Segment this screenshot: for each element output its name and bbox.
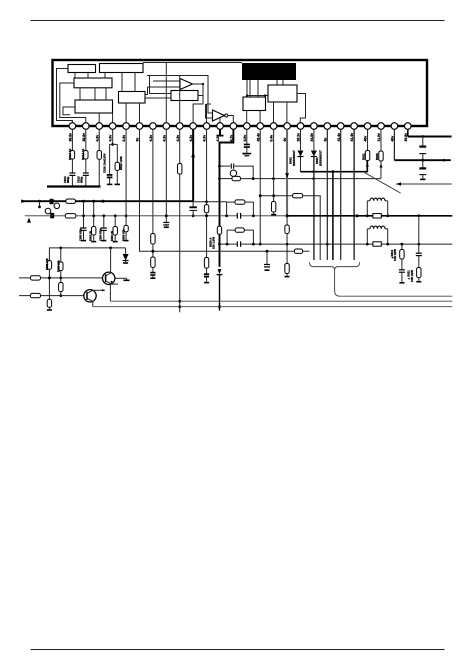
svg-text:C603 630u: C603 630u <box>78 227 82 241</box>
resistor R614 <box>70 151 74 160</box>
resistor R621 22k <box>48 251 50 261</box>
ground <box>48 307 50 309</box>
svg-text:10R 1/2W: 10R 1/2W <box>410 270 414 282</box>
wire y196 <box>260 195 292 197</box>
wire <box>60 271 62 283</box>
diode D604 <box>218 269 222 274</box>
resistor R607 <box>30 276 40 280</box>
ground <box>273 212 275 214</box>
wire pin19 long <box>313 157 315 261</box>
wire pin14 <box>246 129 248 144</box>
wire emitter <box>87 298 93 306</box>
svg-text:220 1.6W: 220 1.6W <box>212 237 216 249</box>
ground <box>206 277 208 282</box>
capacitor C618 <box>163 222 169 224</box>
resistor R602 <box>65 214 76 218</box>
IC internal block B5 <box>119 92 146 104</box>
capacitor C604 <box>101 227 107 229</box>
resistor R627 <box>232 176 241 180</box>
ceramic filter X601 <box>230 170 236 176</box>
wire trap2 <box>226 230 228 244</box>
ground <box>107 183 113 185</box>
wire pin22 <box>353 129 355 260</box>
diagonal line <box>365 173 401 193</box>
wire stub <box>39 201 41 206</box>
resistor R605 <box>373 214 381 218</box>
resistor R608 <box>30 293 40 297</box>
IC internal wires right <box>228 116 234 123</box>
IC internal wires left nest <box>57 69 73 123</box>
wire <box>422 154 424 168</box>
resistor R620 <box>204 205 208 213</box>
capacitor C617 <box>204 273 209 275</box>
wire stub <box>366 229 368 244</box>
svg-text:R621 22k: R621 22k <box>45 258 49 270</box>
wire pin23 <box>367 129 369 150</box>
wire pin2 <box>85 129 87 150</box>
svg-text:R614 1k: R614 1k <box>68 148 72 160</box>
wire <box>125 248 127 254</box>
resistor R635 <box>235 228 244 232</box>
wire <box>206 214 208 258</box>
capacitor C619 <box>244 144 250 146</box>
svg-text:R620 22k: R620 22k <box>56 260 60 272</box>
wire bus2 thick <box>287 215 452 217</box>
capacitor blob <box>50 213 54 218</box>
resistor R632 <box>294 249 302 253</box>
transistor Q601 <box>103 272 115 284</box>
IC internal block B3 <box>74 78 112 88</box>
svg-text:R603 3k: R603 3k <box>89 230 93 241</box>
ground <box>125 261 127 263</box>
wire pin9 long <box>179 174 181 312</box>
ground <box>286 274 288 276</box>
capacitor C623 <box>192 202 194 207</box>
wire branch resistor <box>218 177 221 180</box>
wire pin1 <box>71 129 73 150</box>
wire <box>48 269 50 299</box>
wire <box>286 234 288 264</box>
wire bus B <box>110 300 452 302</box>
svg-text:R613 1k: R613 1k <box>81 148 85 160</box>
wire from brace <box>335 270 453 296</box>
op-amp U601b <box>213 110 225 121</box>
ground <box>116 170 118 183</box>
ground <box>124 279 130 281</box>
ground <box>418 278 420 281</box>
IC internal block B6 <box>171 91 198 101</box>
wire line3 <box>19 277 103 279</box>
wire <box>83 201 85 227</box>
wire <box>192 210 194 215</box>
wire pin4 <box>112 129 114 144</box>
wire <box>71 175 73 187</box>
ground <box>125 232 127 240</box>
diode D603 <box>123 254 129 261</box>
wire <box>114 216 116 227</box>
resistor <box>47 299 51 307</box>
op-amp U601a <box>180 79 193 90</box>
ground <box>114 235 116 241</box>
wire pin12 stub <box>219 129 221 135</box>
IC internal block B8 <box>268 85 297 102</box>
svg-text:10R 1/2W: 10R 1/2W <box>393 249 397 261</box>
connector circle <box>45 208 51 214</box>
IC internal black block <box>242 63 296 80</box>
IC internal wires mid <box>104 73 106 79</box>
wire pin8 <box>165 129 167 222</box>
wire pin13 lower <box>219 275 221 311</box>
wire pin20 <box>326 129 328 260</box>
resistor R605 <box>124 225 128 231</box>
wire collector <box>93 289 105 291</box>
wire trap1 <box>226 202 228 216</box>
resistor R628 <box>271 202 275 213</box>
ground <box>242 153 251 155</box>
wire thick bus <box>47 185 101 187</box>
resistor R619 <box>178 164 182 175</box>
wire <box>246 147 248 153</box>
resistor R612 <box>400 250 404 260</box>
page bottom rule <box>31 649 445 651</box>
page top rule <box>31 20 445 22</box>
IC internal block B4 <box>75 100 113 113</box>
wire <box>71 159 73 173</box>
resistor <box>204 258 208 269</box>
IC pins 1-26 <box>69 123 76 130</box>
resistor R615 <box>97 151 101 160</box>
wire pin26 thick <box>407 129 409 136</box>
resistor <box>59 283 63 292</box>
inductor L602 <box>367 228 370 230</box>
capacitor CF <box>230 164 232 169</box>
resistor R631 <box>293 194 303 198</box>
wire L1 thick <box>300 161 367 172</box>
wire <box>299 157 301 172</box>
wire thick y160 <box>394 159 450 161</box>
wire line4 <box>19 295 84 297</box>
svg-text:R605 39k: R605 39k <box>122 229 126 241</box>
wire branch ceramic filter <box>220 165 231 167</box>
capacitor C621 <box>419 167 426 169</box>
wire cap chain <box>422 137 424 147</box>
diode D602 <box>297 151 303 157</box>
resistor R634 <box>235 200 245 204</box>
wire jog thick <box>332 172 334 260</box>
wire pin3 <box>98 129 100 150</box>
resistor R611 <box>417 268 421 278</box>
wire rail y247.9 <box>49 248 125 251</box>
wire pin5 <box>125 129 127 225</box>
wire bus A thick <box>22 200 194 202</box>
wire <box>206 268 208 274</box>
svg-text:ISS306/SOT: ISS306/SOT <box>318 150 322 166</box>
ground <box>401 272 403 282</box>
wire pin19 <box>313 129 315 150</box>
wire arrow line <box>396 183 452 185</box>
ground <box>103 230 105 239</box>
wire bus2 thin <box>25 215 287 217</box>
wire below bus <box>286 216 288 225</box>
capacitor <box>416 252 422 254</box>
capacitor C620 <box>419 146 426 148</box>
resistor R626 <box>379 151 383 161</box>
wire bus C <box>93 306 453 308</box>
wire pin16 <box>273 129 275 201</box>
connector circle <box>54 203 60 209</box>
diode D601 <box>311 151 317 157</box>
wire <box>152 268 154 273</box>
wire pin15 <box>259 129 261 244</box>
wire pin9 <box>179 129 181 163</box>
resistor R613 <box>84 151 88 160</box>
capacitor blob <box>50 199 54 204</box>
resistor R618 <box>151 257 155 268</box>
ground <box>165 225 167 226</box>
wire jog <box>303 196 321 260</box>
capacitor chain <box>266 251 268 264</box>
resistor R630 <box>285 264 289 274</box>
wire pin13 mid <box>219 234 221 266</box>
wire pin11 <box>206 129 208 205</box>
wire stub <box>366 201 368 216</box>
wire pin24 <box>380 129 382 151</box>
ground <box>152 275 154 277</box>
wire pin10 thick <box>192 129 194 201</box>
svg-text:680p: 680p <box>66 176 70 183</box>
transistor Q602 <box>84 290 96 302</box>
wire <box>401 259 403 270</box>
wire pin13 thick <box>220 129 234 226</box>
wire L2 long <box>241 178 381 180</box>
svg-text:ISS306/SOT: ISS306/SOT <box>292 150 296 166</box>
svg-text:R626: R626 <box>375 153 379 160</box>
wire <box>303 250 310 252</box>
resistor R601 <box>66 199 76 203</box>
IC internal block B2 <box>100 64 144 73</box>
wire pin18 <box>299 129 301 150</box>
wire <box>418 216 420 253</box>
wire <box>401 244 403 249</box>
capacitor C603 <box>81 227 87 229</box>
wire emitter <box>112 283 119 285</box>
wire branch <box>110 143 118 145</box>
resistor R621b <box>365 151 369 161</box>
svg-text:C604 630u: C604 630u <box>99 227 103 241</box>
wire y202 thin <box>193 201 226 203</box>
capacitor C616 <box>109 144 111 174</box>
capacitor C624 series in bus2 <box>238 213 240 219</box>
wire pin17 <box>286 129 288 216</box>
wire pin3 to bus <box>98 159 100 186</box>
wire <box>418 256 420 268</box>
capacitor <box>399 269 405 271</box>
arrow up <box>27 217 31 222</box>
svg-text:R621: R621 <box>361 153 365 160</box>
wire <box>152 244 154 257</box>
inductor L601 <box>367 200 370 202</box>
svg-text:C616 10u/100V: C616 10u/100V <box>102 153 106 173</box>
svg-text:0.4v: 0.4v <box>270 135 274 142</box>
wire <box>235 166 254 179</box>
wire y244 <box>220 243 237 245</box>
wire pin25 <box>393 129 395 160</box>
IC internal block B1 <box>68 65 96 73</box>
resistor R629 <box>285 225 289 234</box>
capacitor C613 <box>83 172 89 174</box>
svg-text:R622 120k: R622 120k <box>119 156 123 170</box>
ground <box>93 235 95 241</box>
wire <box>85 159 87 173</box>
resistor R606 <box>373 242 381 246</box>
resistor R603 <box>92 227 96 236</box>
resistor R636 <box>217 226 221 234</box>
resistor R620 22k <box>60 248 62 262</box>
brace wire bundle collector <box>310 262 360 270</box>
resistor R617 <box>151 234 155 245</box>
IC internal block B7 <box>243 97 266 111</box>
wire pin6 <box>139 129 294 251</box>
capacitor <box>150 272 155 274</box>
wire y251 <box>151 250 154 253</box>
capacitor C622 series <box>236 241 238 246</box>
wire <box>380 161 382 179</box>
wire pin7 <box>152 129 154 233</box>
svg-text:680p: 680p <box>79 176 83 183</box>
ground <box>83 230 85 239</box>
wire <box>85 175 87 187</box>
wire <box>60 292 62 296</box>
capacitor C614 <box>69 172 75 174</box>
resistor R604 <box>113 227 117 236</box>
wire y244 long <box>241 243 452 245</box>
ground <box>422 175 424 179</box>
wire pin21 <box>340 129 342 260</box>
svg-text:R604 3k: R604 3k <box>110 230 114 241</box>
wire <box>93 201 95 226</box>
IC U601 body <box>53 60 428 126</box>
wire <box>103 216 105 228</box>
resistor R622 <box>116 144 118 162</box>
